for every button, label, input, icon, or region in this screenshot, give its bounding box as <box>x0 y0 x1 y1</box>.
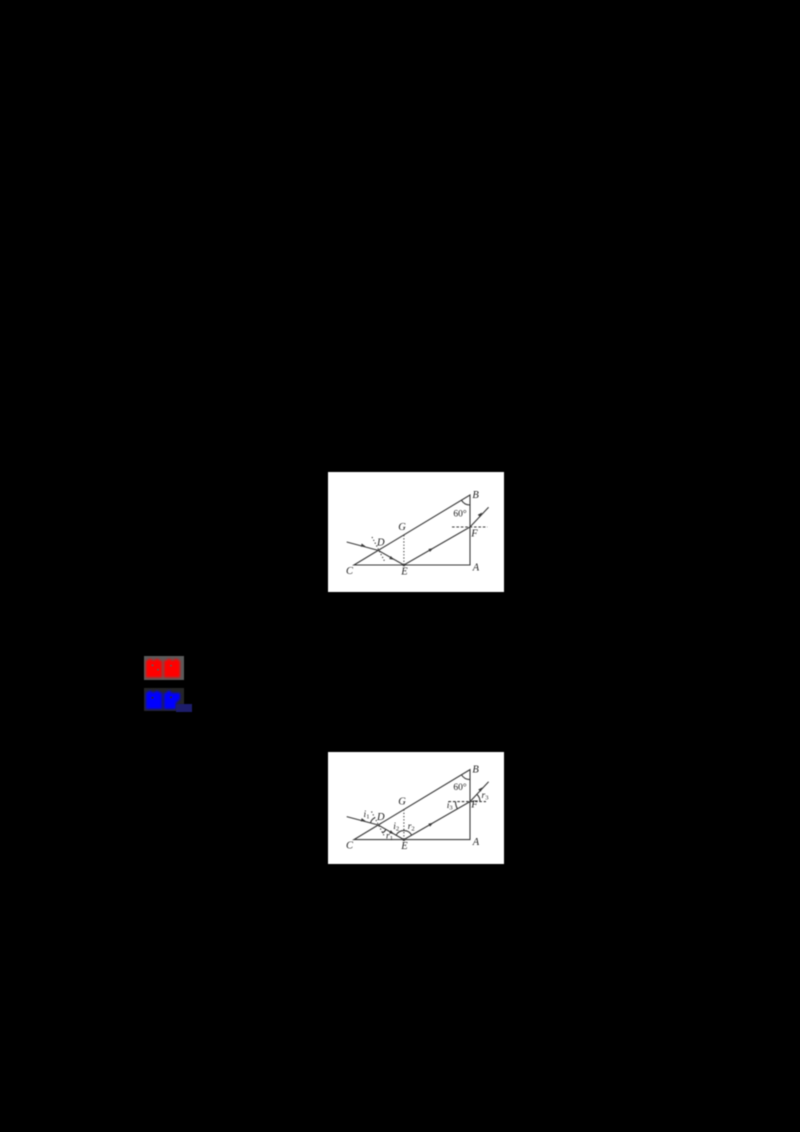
svg-text:B: B <box>472 765 479 776</box>
svg-text:i3: i3 <box>447 801 453 812</box>
svg-text:C: C <box>346 566 354 577</box>
svg-text:r3: r3 <box>482 791 489 802</box>
svg-text:G: G <box>398 797 406 808</box>
svg-text:E: E <box>400 567 408 578</box>
svg-text:A: A <box>472 563 480 574</box>
svg-text:r2: r2 <box>408 822 415 833</box>
svg-text:G: G <box>398 522 406 533</box>
svg-text:F: F <box>470 529 478 540</box>
svg-text:i1: i1 <box>364 810 370 821</box>
svg-text:60°: 60° <box>453 509 467 520</box>
svg-text:B: B <box>472 490 479 501</box>
svg-text:60°: 60° <box>453 782 467 793</box>
svg-text:D: D <box>376 537 385 548</box>
svg-text:i2: i2 <box>393 822 399 833</box>
svg-text:D: D <box>376 812 385 823</box>
svg-text:A: A <box>472 837 480 848</box>
svg-text:F: F <box>470 800 478 811</box>
svg-text:E: E <box>400 841 408 852</box>
svg-text:C: C <box>346 841 354 852</box>
